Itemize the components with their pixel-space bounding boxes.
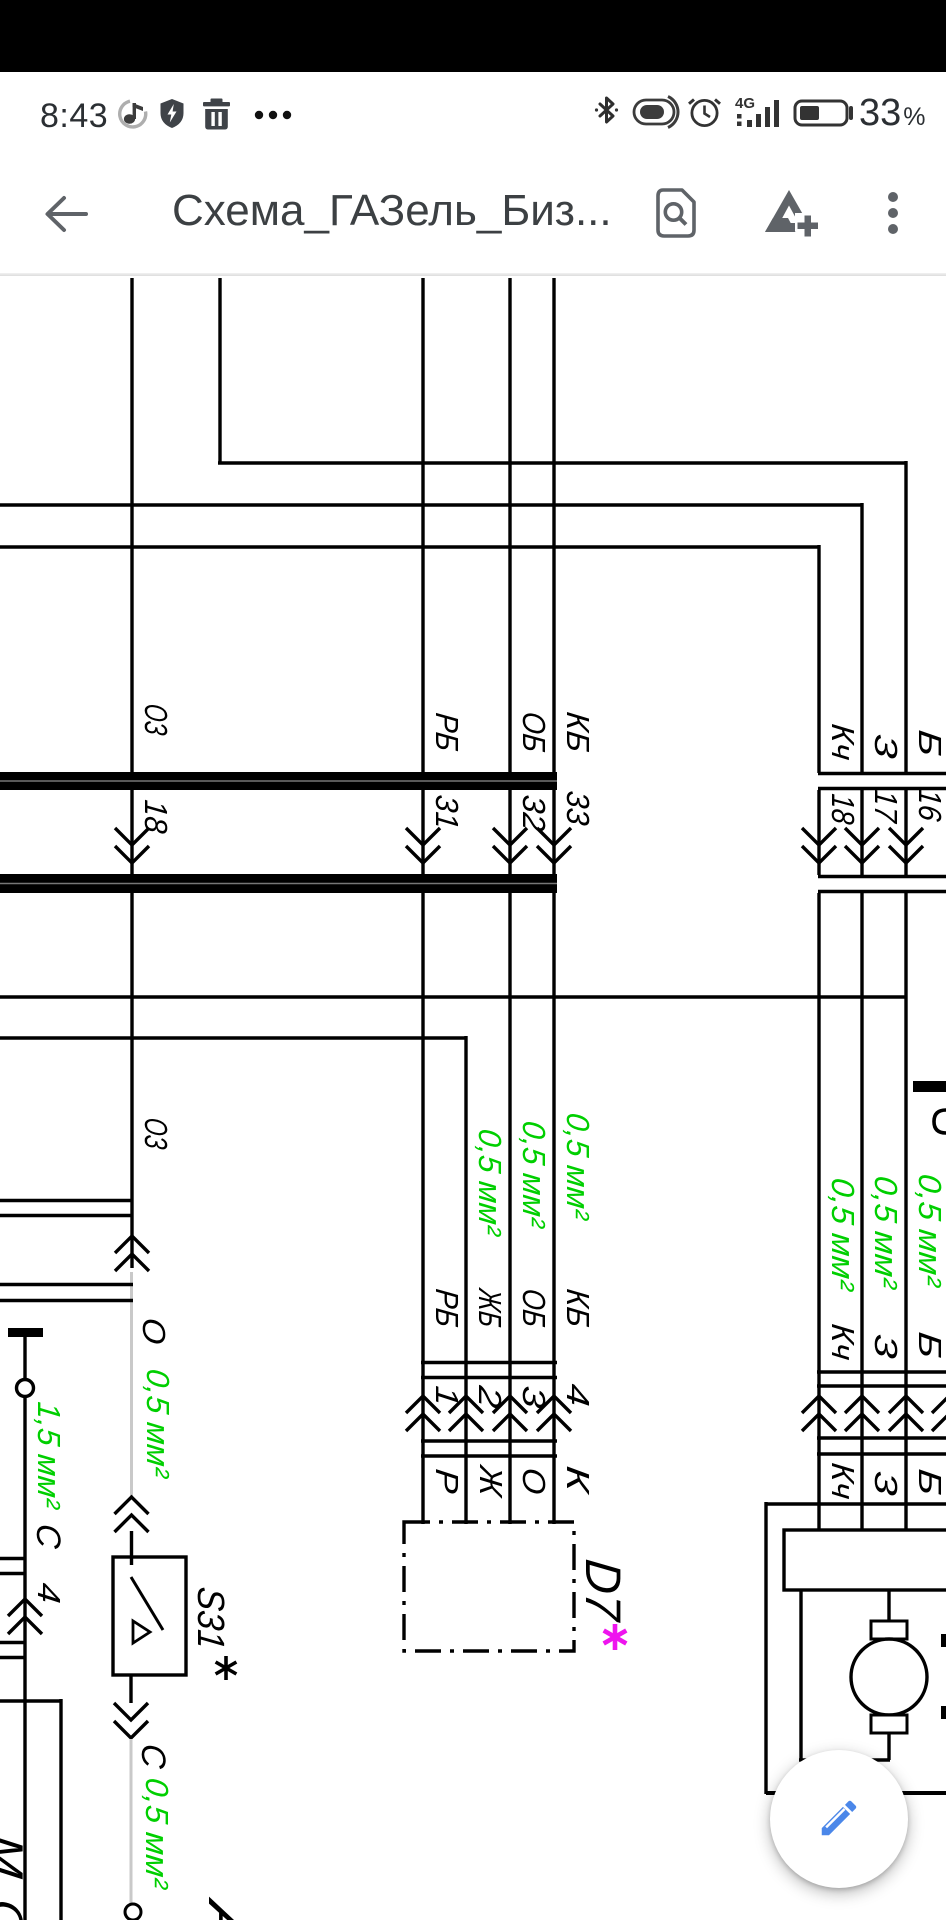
- motor M1 top brush: [871, 1621, 907, 1639]
- wire Кч x=819 down to unit: [817, 893, 820, 1530]
- wire x=25 below splice: [23, 1397, 26, 1920]
- splice circle on x=25: [17, 1380, 34, 1397]
- motor branch left leg x=801: [799, 1590, 802, 1760]
- asterisk (magenta) for D7: [604, 1624, 627, 1650]
- switch S31 contact triangle: [133, 1621, 150, 1643]
- svg-text:КБ: КБ: [560, 1287, 596, 1329]
- connector arrow (down) on pin 32: [493, 828, 527, 845]
- svg-text:S31: S31: [189, 1585, 231, 1651]
- svg-text:3: 3: [868, 732, 904, 760]
- wire from ground stud x=25: [23, 1337, 26, 1380]
- connector bus X1 lower bar (filled), y=874..893: [0, 874, 557, 893]
- svg-text:Б: Б: [912, 728, 946, 758]
- svg-text:Ж: Ж: [473, 1462, 509, 1499]
- svg-text:ОБ: ОБ: [516, 710, 552, 754]
- switch S31 blade: [131, 1577, 163, 1630]
- connector arrow (down) on pin 16: [889, 828, 923, 845]
- svg-text:0,5 мм²: 0,5 мм²: [139, 1776, 175, 1891]
- connector arrow (up) on ОЗ x=132 y=1236: [115, 1236, 149, 1253]
- data saver pill: [634, 97, 678, 128]
- junction rails y=1642,1657 far-left: [0, 1641, 25, 1644]
- svg-text:К: К: [560, 1464, 596, 1497]
- svg-text:С: С: [29, 1522, 67, 1550]
- svg-text:0,5 мм²: 0,5 мм²: [516, 1119, 552, 1230]
- connector arrow (up) on D7 pin 3: [493, 1396, 527, 1413]
- connector X2 lower rail (outline, right side): [818, 875, 946, 878]
- FAB edit button: [770, 1750, 908, 1888]
- trash icon: [203, 99, 230, 130]
- wire ОБ x=510 down to D7: [508, 893, 511, 1524]
- connector arrow (up) right group Б: [889, 1396, 923, 1413]
- wire С grey run below S31: [130, 1739, 133, 1903]
- connector arrow (up) on О x=132 y=1497: [115, 1497, 149, 1514]
- svg-text:Кч: Кч: [825, 1322, 861, 1362]
- svg-text:Р: Р: [429, 1467, 465, 1495]
- svg-text:РБ: РБ: [429, 711, 465, 753]
- svg-text:0,5 мм²: 0,5 мм²: [560, 1111, 596, 1222]
- wire horizontal y=997 across sheet: [0, 995, 907, 998]
- connector arrow (up) right group Кч: [802, 1396, 836, 1413]
- asterisk for S31: [216, 1656, 237, 1680]
- connector arrow (up) on D7 pin 1: [406, 1396, 440, 1413]
- drive add icon: [762, 188, 818, 238]
- connector arrow (up) right group З: [845, 1396, 879, 1413]
- wire ОБ vertical x=510 (top run): [508, 278, 511, 773]
- clipped letter at right edge y=1120: [934, 1110, 946, 1133]
- motor M1 bottom wire: [887, 1733, 890, 1760]
- back arrow: [44, 194, 90, 234]
- junction rails y=1362,1377 (D7 connector): [421, 1361, 557, 1364]
- wire Б riser x=220 from top: [218, 278, 221, 463]
- wire КБ x=554 down to D7: [552, 893, 555, 1524]
- connector X2 upper rail (outline, right side): [818, 772, 946, 775]
- wire into S31 x=131: [130, 1531, 133, 1565]
- connector arrow (down) on pin 17: [845, 828, 879, 845]
- svg-text:18: 18: [825, 792, 861, 826]
- wire РБ segment between connector rails: [421, 790, 424, 875]
- svg-text:31: 31: [429, 793, 465, 831]
- svg-text:С: С: [134, 1742, 172, 1770]
- motor branch bottom y=1760: [799, 1758, 890, 1761]
- svg-text:33: 33: [560, 789, 596, 827]
- connector arrow (down) on pin 31: [406, 828, 440, 845]
- 4G + signal bars: [735, 95, 779, 127]
- svg-text:0,5 мм²: 0,5 мм²: [825, 1176, 861, 1293]
- wire ОЗ vertical x=132 (top run): [130, 278, 133, 773]
- wire Б x=906 down to unit: [904, 893, 907, 1530]
- svg-text:О: О: [516, 1466, 552, 1496]
- wire Б vertical x=906 down to connector: [904, 461, 907, 773]
- alarm clock: [689, 100, 720, 126]
- connector bus X1 upper bar (filled), y=772..790: [0, 772, 557, 790]
- connector arrow (down) on pin 33: [537, 828, 571, 845]
- wire 3 vertical x=862 down to connector: [860, 503, 863, 773]
- junction rails y=1200,1215 left: [0, 1199, 132, 1202]
- ground stud bar top-left: [8, 1328, 43, 1337]
- wire corner Б: horizontal y=463 from x=220 to x=906 then down: [218, 461, 906, 464]
- wire КБ vertical x=554 (top run): [552, 278, 555, 773]
- unit A boundary box (bottom right): [766, 1502, 946, 1505]
- motor M1 bottom brush: [871, 1715, 907, 1733]
- svg-text:КБ: КБ: [560, 710, 596, 754]
- wire ОБ segment between connector rails: [508, 790, 511, 875]
- svg-text:0,5 мм²: 0,5 мм²: [472, 1127, 508, 1238]
- connector arrow (down) on pin 18: [115, 828, 149, 845]
- wire Кч horizontal y=547 from left edge to x=819: [0, 545, 819, 548]
- svg-text:3: 3: [868, 1332, 904, 1360]
- svg-text:Кч: Кч: [825, 1461, 861, 1501]
- shield bolt icon: [161, 99, 184, 128]
- connector arrow (down) on x=131 y=1703: [114, 1703, 148, 1720]
- clipped component bar at right edge y=1081: [913, 1081, 946, 1092]
- svg-text:3: 3: [868, 1469, 904, 1497]
- svg-text:D7: D7: [575, 1557, 631, 1625]
- junction rails y=1372,1386 right: [817, 1370, 946, 1373]
- find in page icon: [653, 188, 699, 238]
- wire 3 horizontal y=505 from left edge to x=862: [0, 503, 862, 506]
- svg-text:С: С: [0, 1897, 33, 1920]
- svg-text:ОЗ: ОЗ: [138, 702, 174, 737]
- wire Кч vertical x=819 down to connector: [817, 545, 820, 773]
- svg-text:0,5 мм²: 0,5 мм²: [140, 1367, 176, 1480]
- motor M1 body: [851, 1639, 927, 1715]
- wire Б segment between connector rails: [904, 790, 907, 875]
- music circle icon: [120, 101, 146, 127]
- wire Кч segment between connector rails: [817, 790, 820, 875]
- svg-text:1,5 мм²: 1,5 мм²: [31, 1400, 67, 1511]
- three dots: [255, 111, 291, 119]
- unit inner terminal block: [784, 1530, 946, 1590]
- app bar: [0, 150, 946, 275]
- svg-text:ОЗ: ОЗ: [138, 1116, 174, 1151]
- svg-text:0,5 мм²: 0,5 мм²: [868, 1174, 904, 1291]
- svg-text:32: 32: [516, 793, 552, 833]
- connector arrow (up) on D7 pin 4: [537, 1396, 571, 1413]
- svg-text:4G: 4G: [735, 95, 755, 112]
- svg-text:А: А: [198, 1895, 254, 1920]
- wire З x=862 down to unit: [860, 893, 863, 1530]
- component D7 box (dash-dot): [404, 1522, 574, 1651]
- switch S31 box: [113, 1557, 186, 1675]
- status bar: [0, 72, 946, 150]
- svg-text:ОБ: ОБ: [516, 1287, 552, 1329]
- wire ЖБ vertical x=466 down to D7: [464, 1036, 467, 1524]
- junction rails y=1558,1573 far-left: [0, 1557, 25, 1560]
- svg-text:М: М: [0, 1833, 33, 1881]
- motor feed wire x=889: [887, 1590, 890, 1622]
- title: [172, 186, 612, 236]
- svg-text:Б: Б: [912, 1330, 946, 1360]
- wire corner x=61: horizontal y=1701 then down: [0, 1699, 61, 1702]
- svg-text:0,5 мм²: 0,5 мм²: [912, 1172, 946, 1289]
- wire РБ vertical x=423 (top run): [421, 278, 424, 773]
- svg-text:16: 16: [912, 787, 946, 823]
- connector arrow (up) on x=25 y=1599: [8, 1599, 42, 1616]
- svg-text:4: 4: [31, 1581, 67, 1605]
- svg-text:18: 18: [138, 798, 174, 835]
- junction rails y=1438,1454 right: [817, 1436, 946, 1439]
- svg-text:17: 17: [868, 788, 904, 825]
- connector arrow (up) on D7 pin 2: [449, 1396, 483, 1413]
- top black band: [0, 0, 946, 72]
- wire З segment between connector rails: [860, 790, 863, 875]
- wire ОЗ x=132 from lower bus to junction lines: [130, 893, 133, 1268]
- appbar divider: [0, 273, 946, 276]
- connector arrow (down) on pin 18: [802, 828, 836, 845]
- svg-text:Б: Б: [912, 1467, 946, 1497]
- wire ОЗ segment between connector rails: [130, 790, 133, 875]
- svg-text:ЖБ: ЖБ: [472, 1286, 508, 1329]
- svg-text:Кч: Кч: [825, 722, 861, 762]
- junction rails y=1441,1456 (D7 side): [421, 1439, 557, 1442]
- bluetooth icon: [595, 98, 618, 122]
- wire РБ x=423 down to D7: [421, 893, 424, 1524]
- overflow dots: [884, 190, 904, 238]
- junction rails y=1285,1300 left: [0, 1283, 133, 1286]
- connector arrow (up) right group edge: [932, 1396, 946, 1413]
- wire x=131 below S31: [129, 1675, 132, 1703]
- wire О x=132 grey run to S31: [130, 1272, 133, 1497]
- svg-text:РБ: РБ: [429, 1287, 465, 1329]
- svg-text:33%: 33%: [859, 94, 926, 134]
- clipped terminal marks right edge: [941, 1634, 946, 1647]
- svg-text:О: О: [136, 1316, 172, 1346]
- splice circle bottom x=133: [125, 1904, 141, 1920]
- battery: [795, 101, 851, 125]
- wire КБ segment between connector rails: [552, 790, 555, 875]
- svg-text:4: 4: [560, 1382, 596, 1408]
- wire ЖБ horizontal y=1038 from left edge to x=466: [0, 1036, 466, 1039]
